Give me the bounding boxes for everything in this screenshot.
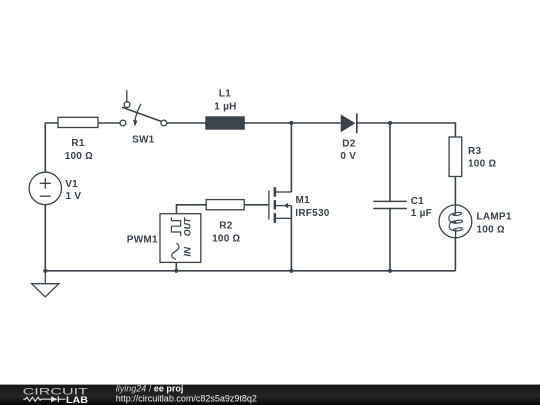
SW1 open-throw stub bbox=[126, 90, 128, 102]
svg-text:R3: R3 bbox=[468, 146, 481, 157]
svg-text:LAB: LAB bbox=[66, 395, 88, 405]
capacitor C1 bbox=[373, 196, 432, 219]
svg-text:http://circuitlab.com/c82s5a9z: http://circuitlab.com/c82s5a9z9t8q2 bbox=[116, 394, 257, 404]
wire R2 to M1 gate bbox=[244, 204, 268, 206]
footer bar bbox=[0, 385, 540, 405]
resistor R2 bbox=[206, 200, 244, 245]
wire C1 top from node bbox=[389, 123, 391, 201]
node ground rail at PWM1 bbox=[174, 269, 178, 273]
svg-text:0 V: 0 V bbox=[340, 151, 356, 162]
wire M1 drain vertical bbox=[290, 123, 292, 192]
svg-text:100 Ω: 100 Ω bbox=[65, 151, 93, 162]
svg-text:V1: V1 bbox=[65, 179, 78, 190]
wire LAMP1 to bottom rail bbox=[454, 238, 456, 271]
svg-text:IN: IN bbox=[183, 246, 193, 256]
svg-text:L1: L1 bbox=[219, 89, 231, 100]
resistor R3 bbox=[449, 137, 496, 177]
svg-text:100 Ω: 100 Ω bbox=[468, 159, 496, 170]
node at D2/C1 top bbox=[388, 121, 392, 125]
svg-text:D2: D2 bbox=[342, 139, 355, 150]
SW1 right terminal bbox=[161, 120, 167, 126]
wire M1 source to rail bbox=[290, 206, 292, 271]
svg-text:LAMP1: LAMP1 bbox=[477, 211, 512, 222]
svg-text:M1: M1 bbox=[296, 195, 311, 206]
footer logo diode bbox=[51, 396, 57, 402]
svg-text:liying24 / ee proj: liying24 / ee proj bbox=[116, 384, 184, 394]
inductor L1 bbox=[206, 89, 245, 130]
wire SW1 common to L1 bbox=[167, 122, 206, 124]
switch SW1 bbox=[120, 90, 167, 145]
svg-text:OUT: OUT bbox=[183, 217, 193, 236]
node ground rail at V1 bbox=[43, 269, 47, 273]
svg-text:C1: C1 bbox=[411, 196, 424, 207]
node at L1/M1 drain bbox=[289, 121, 293, 125]
SW1 blade bbox=[122, 107, 161, 121]
svg-text:IRF530: IRF530 bbox=[295, 208, 329, 219]
wire node to D2 anode bbox=[291, 122, 340, 124]
node ground rail at M1 source bbox=[289, 269, 293, 273]
wire D2 cathode to node at C1 bbox=[358, 122, 391, 124]
mosfet M1 bbox=[269, 187, 330, 223]
SW1 top terminal bbox=[124, 102, 130, 108]
wire V1 to ground node bbox=[44, 205, 46, 271]
svg-text:1 V: 1 V bbox=[66, 191, 82, 202]
diode D2 bbox=[340, 113, 356, 162]
svg-text:R2: R2 bbox=[219, 220, 232, 231]
wire C1 bottom to rail bbox=[389, 209, 391, 271]
SW1 actuator arrow bbox=[135, 104, 141, 121]
wire R1 to SW1 left throw bbox=[98, 122, 120, 124]
wire R3 to LAMP1 bbox=[454, 176, 456, 205]
svg-text:PWM1: PWM1 bbox=[127, 235, 158, 246]
PWM source PWM1 bbox=[127, 214, 201, 263]
lamp LAMP1 bbox=[439, 205, 512, 238]
voltage source V1 bbox=[29, 172, 81, 204]
wire PWM1 out to R2 bbox=[177, 205, 207, 214]
svg-text:1 µH: 1 µH bbox=[214, 101, 236, 112]
wire top-left from V1 to R1 bbox=[45, 123, 58, 172]
svg-text:1 µF: 1 µF bbox=[411, 208, 432, 219]
wire bottom ground rail bbox=[45, 270, 455, 272]
SW1 left terminal bbox=[120, 120, 126, 126]
wire node to top-right corner down to R3 bbox=[390, 123, 455, 137]
resistor R1 bbox=[58, 117, 98, 162]
wire PWM1 bottom pin to rail bbox=[175, 262, 177, 270]
svg-text:100 Ω: 100 Ω bbox=[477, 225, 505, 236]
wire L1 to node at M1 drain bbox=[244, 122, 291, 124]
svg-text:SW1: SW1 bbox=[132, 135, 155, 146]
node ground rail at C1 bbox=[388, 269, 392, 273]
ground bbox=[32, 271, 59, 297]
footer logo waveform bbox=[23, 397, 51, 401]
svg-text:100 Ω: 100 Ω bbox=[212, 233, 240, 244]
svg-text:R1: R1 bbox=[71, 138, 84, 149]
